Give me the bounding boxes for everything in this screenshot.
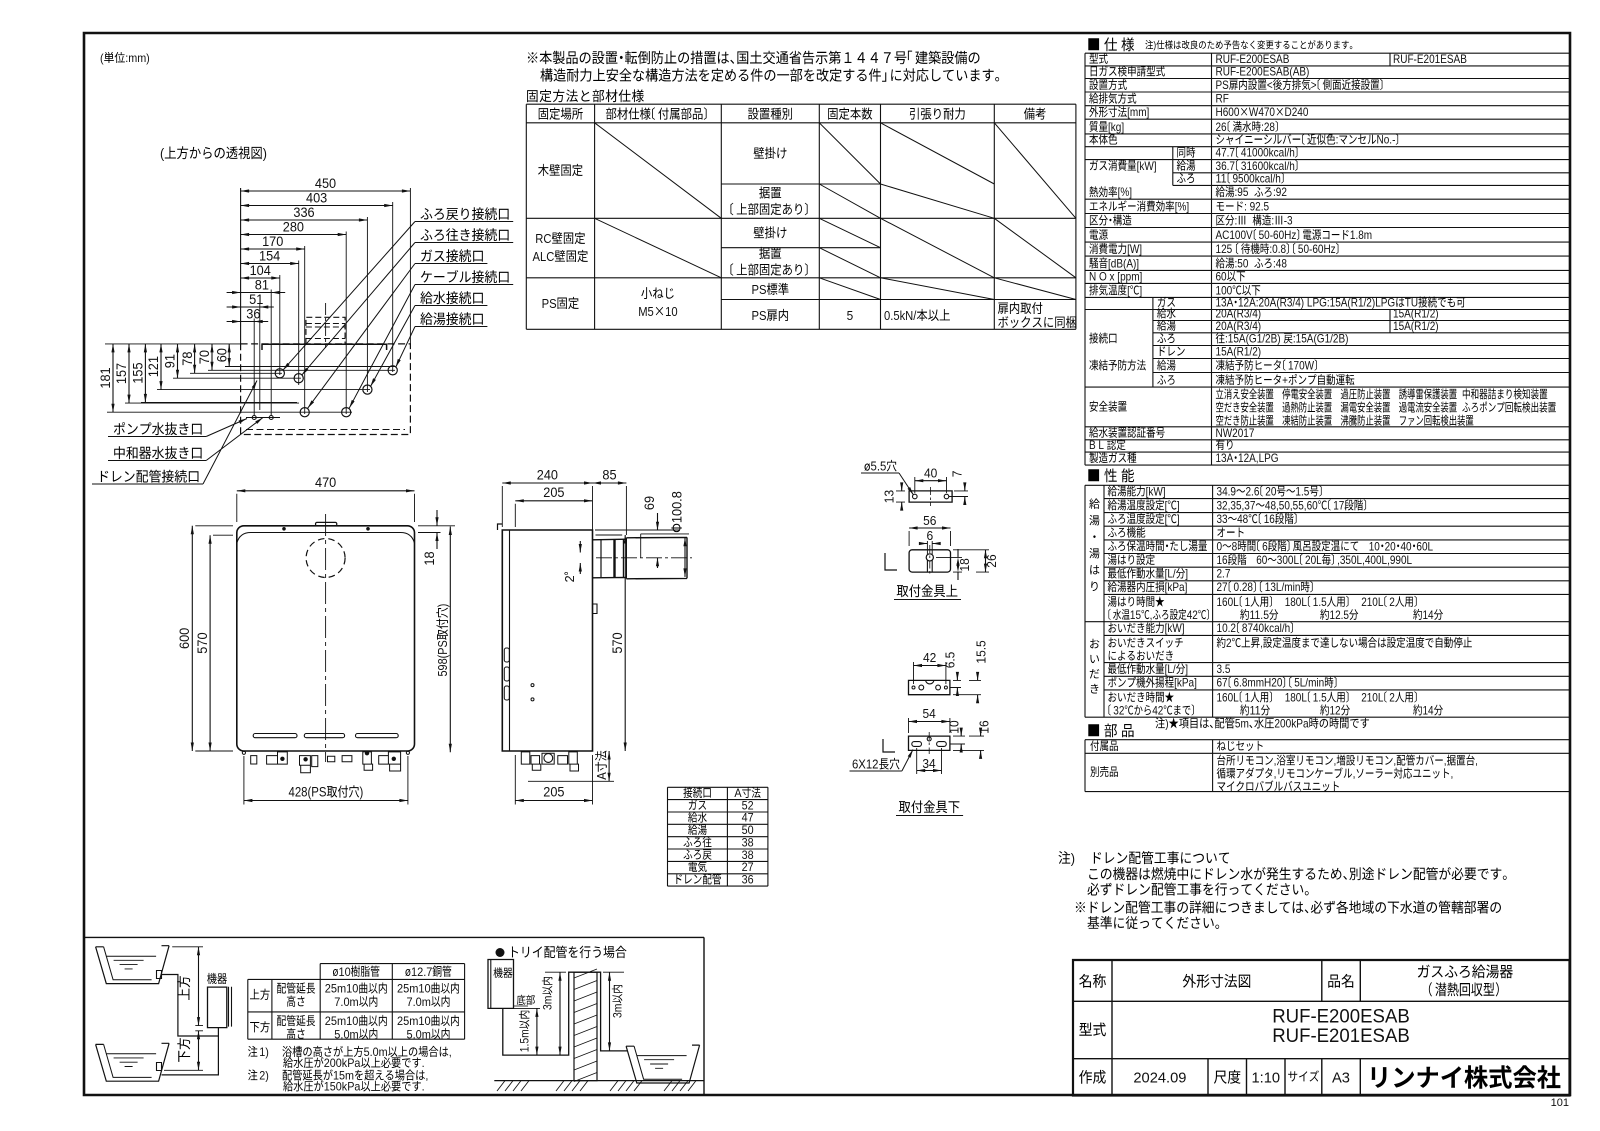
svg-text:92.5: 92.5 [1250,200,1270,214]
svg-text:60: 60 [214,348,229,362]
svg-text:85: 85 [602,467,616,482]
svg-text:78: 78 [180,352,195,366]
svg-text:18: 18 [958,558,972,571]
svg-text:,: , [1274,754,1277,768]
svg-text:47.7: 47.7 [1216,146,1236,160]
svg-text:34.9: 34.9 [1217,484,1237,498]
perspective: connection ports [275,369,284,378]
svg-text:1: 1 [1245,595,1251,609]
svg-text:5: 5 [847,308,854,323]
svg-text:2: 2 [1226,636,1232,650]
svg-text:81: 81 [255,277,269,292]
svg-text::mm): :mm) [125,51,150,65]
svg-text:470: 470 [315,475,336,490]
svg-text:42: 42 [923,651,936,665]
svg-text:100.8: 100.8 [670,491,685,523]
svg-text:x: x [1110,269,1115,283]
svg-text:): ) [1165,717,1168,731]
svg-text:15.5: 15.5 [975,640,989,663]
svg-text:1.5: 1.5 [1313,690,1327,704]
svg-text:14: 14 [1423,703,1434,717]
svg-text:600: 600 [177,628,192,649]
svg-text:17: 17 [1333,498,1344,512]
svg-text:2.7: 2.7 [1217,567,1231,581]
svg-text:42: 42 [1152,703,1163,717]
performance table grid [1085,485,1570,717]
svg-text:210L: 210L [1361,595,1384,609]
performance note [1155,717,1369,728]
front view exhaust dashed circle [306,539,345,578]
svg-text:34: 34 [922,757,935,771]
svg-text:60: 60 [1216,269,1227,283]
svg-text:[dB(A)]: [dB(A)] [1108,256,1139,270]
svg-text:RUF-E201ESAB: RUF-E201ESAB [1393,52,1467,66]
svg-text:[ppm]: [ppm] [1117,269,1142,283]
bracket top: 18 dim [958,558,972,571]
svg-text:5.5: 5.5 [871,460,887,474]
svg-text:6X12: 6X12 [852,758,879,772]
front view 598 dim [435,604,450,677]
piping length table [333,965,380,976]
svg-text:-3: -3 [1284,214,1293,228]
svg-text:160L: 160L [1217,595,1240,609]
svg-text:10: 10 [339,965,351,979]
svg-text:15: 15 [1130,608,1141,622]
svg-text:+: + [1282,373,1288,387]
lower tub outlet [157,1063,162,1071]
svg-text:0.28: 0.28 [1234,580,1254,594]
svg-text:15A(R1/2): 15A(R1/2) [1216,345,1262,359]
svg-text::48: :48 [1273,256,1287,270]
svg-text:(: ( [160,145,164,161]
svg-text:240: 240 [537,467,558,482]
svg-text:,: , [425,1069,428,1083]
side view rear small tab [593,604,598,614]
svg-text:50-60Hz: 50-60Hz [1298,242,1336,256]
svg-text:336: 336 [293,205,314,220]
svg-text:PS: PS [542,296,557,311]
svg-text:12A,LPG: 12A,LPG [1238,451,1279,465]
svg-text:RUF-E201ESAB: RUF-E201ESAB [1272,1026,1410,1047]
svg-text:1: 1 [1245,690,1251,704]
svg-text:3m: 3m [543,996,555,1010]
svg-text:[L/: [L/ [1165,662,1177,676]
side view top-left bracket [498,524,503,530]
bracket bottom: 16 dim [978,720,992,733]
bracket bottom: slot label [879,758,899,770]
side view phi dim [670,491,685,532]
svg-text:11.5: 11.5 [1250,608,1270,622]
svg-text:A: A [594,772,609,780]
svg-text:>: > [1311,78,1317,92]
svg-text::: : [1244,200,1247,214]
svg-text:3.5: 3.5 [1217,662,1231,676]
svg-text:428(PS: 428(PS [289,785,327,800]
svg-text:12.7: 12.7 [411,965,433,979]
svg-text:101: 101 [1551,1097,1569,1109]
svg-text:403: 403 [306,190,327,205]
svg-text::92: :92 [1273,185,1287,199]
svg-text:L: L [1098,438,1104,452]
svg-text:[kW]: [kW] [1137,159,1157,173]
svg-text:]: ] [1185,567,1188,581]
spec table heading [1088,37,1134,51]
svg-text:): ) [1071,851,1075,867]
svg-text:D240: D240 [1285,105,1309,119]
svg-text:1.8m: 1.8m [1350,228,1372,242]
kiki unit box [207,973,227,984]
svg-text:,: , [1150,608,1153,622]
svg-text:205: 205 [543,785,564,800]
torii piping title [496,948,505,957]
side view outline [502,530,592,751]
svg-text:AC100V: AC100V [1216,228,1253,242]
parts table heading [1088,724,1133,738]
svg-text:11: 11 [1216,171,1227,185]
svg-text:157: 157 [114,363,129,384]
svg-text:,: , [1451,767,1454,781]
piping from upper tub [162,975,219,1075]
perspective: exhaust duct dashed [306,317,345,344]
svg-text:570: 570 [195,633,210,654]
bracket bottom: label [899,800,960,813]
svg-text:41000kcal/h: 41000kcal/h [1241,146,1295,160]
torii kiki box [494,967,513,978]
svg-text:40: 40 [924,467,937,481]
svg-text:1): 1) [259,1045,269,1059]
svg-text:2024.09: 2024.09 [1133,1070,1186,1087]
svg-text:No.-: No.- [1377,133,1396,147]
piping section frame [84,937,704,1094]
svg-text:13A: 13A [1216,451,1234,465]
perspective: drain labels [114,422,202,435]
svg-text::0.8: :0.8 [1269,242,1286,256]
svg-text:180L: 180L [1285,690,1308,704]
svg-text:,: , [1353,767,1356,781]
svg-text:67: 67 [1217,676,1228,690]
performance table text [1108,485,1145,496]
svg-text:,: , [1475,754,1478,768]
torii ground [494,1080,704,1082]
svg-text:[%]: [%] [1175,200,1189,214]
svg-text:[L/: [L/ [1165,567,1177,581]
svg-text:(: ( [100,51,104,65]
svg-text:[kW]: [kW] [1165,621,1185,635]
svg-text::15A(G1/2B): :15A(G1/2B) [1225,332,1281,346]
svg-text:12.5: 12.5 [1330,608,1350,622]
svg-text:[kPa]: [kPa] [1174,676,1197,690]
performance table heading [1088,468,1134,482]
svg-text:,350L,400L,990L: ,350L,400L,990L [1337,553,1412,567]
svg-text:6: 6 [927,529,934,543]
svg-text:1.5: 1.5 [1313,595,1327,609]
svg-text:70: 70 [197,350,212,364]
front view centerline [325,514,327,762]
side view bottom connectors [544,754,553,763]
svg-text:]: ] [1177,512,1180,526]
bracket bottom: 15.5 dim [975,640,989,663]
bracket top: 26 dim [985,554,999,567]
svg-text:M5: M5 [638,304,654,319]
svg-text:13: 13 [883,490,897,503]
svg-text:B: B [1089,438,1096,452]
svg-text:[W]: [W] [1127,242,1142,256]
svg-text:8740kcal/h: 8740kcal/h [1242,621,1290,635]
perspective: extension lines vertical [240,188,242,344]
side view 2deg annotation [563,572,577,582]
svg-text:1.5: 1.5 [1295,484,1309,498]
bracket bottom: plan view [926,680,934,684]
svg-text:): ) [1153,41,1156,52]
svg-text:,: , [1444,754,1447,768]
perspective: port labels [421,207,509,220]
svg-text:]: ] [1177,498,1180,512]
svg-text:,: , [449,1045,452,1059]
svg-text:10.2: 10.2 [1217,621,1237,635]
torii wall hatched [574,972,597,1080]
svg-text:48: 48 [1237,512,1248,526]
svg-text:9500kcal/h: 9500kcal/h [1233,171,1281,185]
fixing table text [539,108,583,120]
svg-text:NW2017: NW2017 [1216,426,1255,440]
svg-text:15A(R1/2): 15A(R1/2) [1393,319,1439,333]
perspective: solid top mount line [262,344,387,350]
front view 428 dim [327,785,359,797]
top notice text [528,51,980,65]
svg-text:570: 570 [610,632,625,653]
svg-text::: : [1336,133,1339,147]
svg-text:A: A [734,786,741,800]
svg-text:<: < [1267,78,1273,92]
svg-text:5.0m: 5.0m [364,1045,388,1059]
front view top screws [282,527,286,531]
svg-text:PS: PS [752,282,767,297]
svg-text:25m10: 25m10 [325,1014,359,1028]
svg-text:16: 16 [1264,512,1275,526]
svg-text:598(PS: 598(PS [435,640,450,676]
front view inner panel line [237,533,415,544]
bracket top: 7 dim [951,471,965,478]
svg-text:170: 170 [262,234,283,249]
svg-text:26: 26 [985,554,999,567]
svg-text:60L: 60L [1416,539,1433,553]
svg-text:7.0m: 7.0m [407,995,431,1009]
svg-text:51: 51 [249,292,263,307]
svg-text:20: 20 [1265,484,1276,498]
svg-text:0: 0 [1217,539,1223,553]
torii dims [519,1011,532,1053]
side view 570 dim [610,632,625,653]
side view A dim [594,751,609,780]
svg-text:170W: 170W [1288,359,1315,373]
svg-text:RF: RF [1216,92,1229,106]
svg-text:155: 155 [131,363,146,384]
A-dim table grid [668,787,768,886]
fixing table diagonals [595,123,1076,300]
svg-text:10: 10 [665,304,678,319]
perspective: vertical dimensions [98,367,113,388]
svg-text:[kg]: [kg] [1108,120,1124,134]
bracket top: hole label [865,460,897,472]
svg-text:12: 12 [1330,703,1341,717]
svg-text:50-60Hz: 50-60Hz [1259,228,1297,242]
svg-text::: : [1235,214,1238,228]
torii pipe [503,972,627,1055]
svg-text:ALC: ALC [533,249,555,264]
svg-text:O: O [1099,269,1107,283]
svg-text:[mm]: [mm] [1127,105,1149,119]
svg-text:150kPa: 150kPa [324,1080,361,1094]
svg-text:91: 91 [163,354,178,368]
svg-text:.: . [422,1080,425,1094]
svg-text:280: 280 [283,219,304,234]
svg-text::95: :95 [1235,185,1249,199]
svg-text:40: 40 [1401,539,1412,553]
svg-text:210L: 210L [1361,690,1384,704]
svg-text:32: 32 [1113,703,1124,717]
svg-text:,: , [1274,767,1277,781]
svg-text:450: 450 [315,176,336,191]
lower bathtub [96,1043,170,1081]
perspective: drain points [252,416,256,420]
side view louvers [504,648,509,662]
svg-text:181: 181 [98,367,113,388]
svg-text:7.0m: 7.0m [334,995,358,1009]
svg-text:18: 18 [422,551,437,565]
svg-text:16: 16 [1217,553,1228,567]
svg-text:): ) [360,785,364,800]
svg-text:PS: PS [752,308,767,323]
svg-text:): ) [435,604,450,608]
title block frame [1073,960,1570,1096]
svg-text:11: 11 [1250,703,1261,717]
svg-text:20L: 20L [1305,553,1322,567]
svg-text:36: 36 [246,306,260,321]
svg-text:36: 36 [742,873,754,887]
svg-text:): ) [263,145,267,161]
svg-text:10: 10 [1369,539,1380,553]
svg-text:2: 2 [563,575,577,582]
svg-text:25m10: 25m10 [325,982,359,996]
svg-text:H600: H600 [1216,105,1240,119]
svg-text:0.5kN/: 0.5kN/ [884,308,917,323]
svg-text:13L/min: 13L/min [1265,580,1301,594]
bracket bottom: 10 dim [947,720,961,733]
bracket top: label [897,584,958,597]
svg-text:121: 121 [146,356,161,377]
torii bathtub [626,1045,700,1083]
bracket top: datum mark [885,553,897,570]
svg-text:[%]: [%] [1118,185,1132,199]
perspective: unit dashed outline [241,344,411,435]
unit note top-left [104,52,125,63]
svg-text:56: 56 [923,514,936,528]
svg-text:14: 14 [1423,608,1434,622]
svg-text::15A(G1/2B): :15A(G1/2B) [1293,332,1349,346]
svg-text:]: ] [1185,662,1188,676]
drain piping notes [1059,851,1071,864]
svg-text::: : [1271,214,1274,228]
svg-text:33: 33 [1217,512,1228,526]
svg-text:60: 60 [1256,553,1267,567]
svg-text:RUF-E200ESAB: RUF-E200ESAB [1272,1007,1410,1028]
svg-text:RC: RC [535,231,552,246]
front view top tab [316,522,337,525]
parts table grid [1085,740,1570,792]
parts table text [1090,740,1117,751]
svg-text:104: 104 [250,263,272,278]
svg-text:26: 26 [1216,120,1227,134]
front view louver slots [253,734,297,738]
perspective: top view label [165,146,262,159]
A-dim table text [683,787,710,798]
svg-text:3m: 3m [613,1004,625,1018]
svg-text:42: 42 [1187,608,1198,622]
svg-text:,: , [1260,636,1263,650]
svg-text:25m10: 25m10 [397,1014,431,1028]
svg-text:20: 20 [1385,539,1396,553]
svg-text:6.5: 6.5 [944,652,958,669]
svg-text:205: 205 [543,485,564,500]
up/down dims [177,976,190,1000]
svg-text:27: 27 [1217,580,1228,594]
svg-text:125: 125 [1216,242,1233,256]
piping notes [248,1046,257,1057]
svg-text:160L: 160L [1217,690,1240,704]
performance group labels [1089,498,1099,509]
svg-text:]: ] [1139,283,1142,297]
svg-text:PS: PS [1216,78,1229,92]
svg-text:5L/min: 5L/min [1294,676,1324,690]
spec table grid [1085,53,1570,465]
front view outline [237,526,415,751]
svg-text:2.6: 2.6 [1246,484,1260,498]
bracket bottom: datum mark [883,739,895,752]
svg-text:8: 8 [1232,539,1238,553]
svg-text:[kPa]: [kPa] [1165,580,1188,594]
svg-text:2: 2 [1389,690,1395,704]
svg-text::28: :28 [1261,120,1275,134]
bracket bottom: 6.5 dim [944,652,958,669]
svg-text:W470: W470 [1249,105,1275,119]
side view exhaust pipe [593,537,688,578]
svg-text::50: :50 [1235,256,1249,270]
svg-text:,: , [1334,754,1337,768]
svg-text:A3: A3 [1332,1070,1350,1087]
front view bottom connectors [280,757,284,761]
fixing table grid [526,104,1076,329]
svg-text:1.5m: 1.5m [520,1029,532,1052]
bracket top: 13 dim [883,490,897,503]
spec table text [1089,53,1107,64]
svg-text:6.8mmH20: 6.8mmH20 [1234,676,1283,690]
svg-text:10: 10 [947,720,961,733]
svg-text:25m10: 25m10 [397,982,431,996]
svg-text:LPG:15A(R1/2)LPG: LPG:15A(R1/2)LPG [1307,296,1395,310]
svg-text:7: 7 [951,471,965,478]
title block text [1079,974,1106,988]
svg-text:RUF-E200ESAB(AB): RUF-E200ESAB(AB) [1216,65,1310,79]
bracket top: plan view [913,494,918,499]
svg-text:.: . [422,1056,425,1070]
svg-text:,: , [1393,754,1396,768]
svg-text:154: 154 [259,248,281,263]
upper bathtub [96,946,170,984]
svg-text:2: 2 [1389,595,1395,609]
svg-text:200kPa: 200kPa [1274,717,1308,731]
svg-text:48,50,55,60: 48,50,55,60 [1265,498,1318,512]
svg-text:5m: 5m [1235,717,1249,731]
